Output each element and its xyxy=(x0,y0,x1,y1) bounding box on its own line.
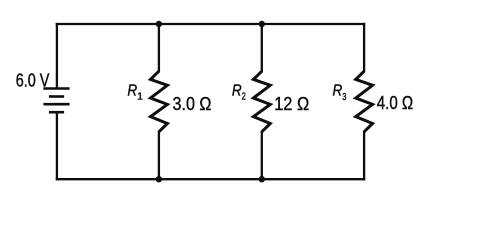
svg-text:2: 2 xyxy=(242,91,247,102)
svg-text:R: R xyxy=(127,83,137,100)
svg-text:R: R xyxy=(333,82,343,99)
svg-text:3.0 Ω: 3.0 Ω xyxy=(173,94,212,114)
svg-text:12 Ω: 12 Ω xyxy=(274,94,309,114)
svg-text:3: 3 xyxy=(342,92,347,103)
svg-text:6.0 V: 6.0 V xyxy=(16,69,50,90)
svg-text:1: 1 xyxy=(137,92,143,103)
svg-text:R: R xyxy=(232,82,242,99)
svg-text:4.0 Ω: 4.0 Ω xyxy=(377,93,413,113)
